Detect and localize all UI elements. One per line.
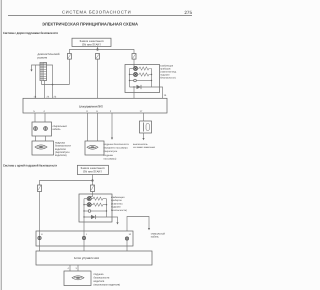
wire: pin 16 feed [35,65,37,98]
wire: cluster right bus [151,69,153,88]
squib symbol passenger [87,145,98,149]
label: spiral cable [53,125,68,131]
ignition switch box S2 [77,165,108,174]
wire: fuse F2 down to SRS pin [97,59,99,98]
instrument cluster box P2 [79,194,112,222]
connector ring 3 [125,237,128,240]
label: instrument cluster 2 [111,196,127,212]
squib symbol driver 2 [72,276,84,280]
svg-text:подушки: подушки [160,73,170,76]
svg-text:Система с одной подушкой безоп: Система с одной подушкой безопасности [3,163,57,167]
svg-text:подушка безопасности: подушка безопасности [104,143,130,146]
wire: cluster2 row3 link to spiral cable [127,217,149,232]
svg-text:кабель: кабель [151,236,160,239]
connector ring 2 [82,236,85,239]
driver airbag squib box 2 [64,271,91,286]
fuse F1 [67,54,71,60]
wire: U2 pin to squib right [77,265,79,271]
ignition switch box S1 [72,38,111,46]
svg-text:275: 275 [184,10,192,15]
wire: pin 4 down [44,113,46,122]
wire: cluster left bus [129,69,131,88]
node: bus junction dot [96,48,98,50]
wire: row3 c2 [84,210,88,212]
node: small circle row3 c2 [88,210,91,213]
arrow: to ground/other circuit [30,70,32,72]
label: spiral cable 2 [151,233,166,239]
wire: row3 [130,80,134,82]
wire: cluster2 left bus [83,199,85,222]
wire: cluster right exit pin 15 [152,87,163,98]
instrument cluster box P1 [125,65,160,93]
label: passenger airbag [104,143,130,160]
wire: cluster2 entry [92,194,94,197]
arrow: to spiral cable label [148,228,150,230]
wire: pin 5 down [34,113,36,122]
connector box on pin 17 [140,121,152,133]
diode D2 [84,215,107,219]
connector ring A [34,127,38,131]
label: ignition key switch [133,143,156,149]
svg-text:приборов: приборов [160,67,171,70]
wire: connector leg to bus y84.5 [41,81,43,85]
fuse F3 [132,54,136,60]
node dots cluster P2 [83,204,107,218]
wire ring 3 down [126,240,128,251]
svg-text:(пиропатрон: (пиропатрон [104,150,118,153]
lamp L3 [87,197,91,201]
resistor R4 [91,203,106,206]
arrow: cluster2 exit [116,222,118,224]
svg-text:подушки: подушки [104,154,114,157]
wire: fuse F3 down to cluster [133,59,135,64]
wire: pin 6 down [97,113,99,141]
label: diagnostic connector [38,52,60,59]
svg-text:на замке зажигания: на замке зажигания [133,146,156,149]
wire: long drop from F4 [39,192,41,232]
svg-text:пассажира): пассажира) [104,157,117,160]
svg-text:ON или START: ON или START [83,170,102,174]
wire: horizontal link y84.5 [42,84,70,86]
svg-text:(лампочка-инд.: (лампочка-инд. [160,70,177,73]
node: bus2 junction dot [91,179,93,181]
fuse F2 [96,54,100,60]
svg-text:кабель: кабель [53,128,62,131]
wire: bracket right of connector to pin 24 [47,65,53,98]
wire through ring 1 [39,231,41,251]
connector ring B [44,127,48,131]
svg-text:комбинация: комбинация [160,64,174,67]
wire: pin 9 down [87,113,89,141]
page left edge line [0,0,2,290]
wire: F5 to cluster 2 [92,192,94,195]
node: small circle row3 [134,79,137,82]
wire: row1 left [130,68,134,70]
svg-text:разъем: разъем [38,56,48,60]
label: driver airbag 2 [94,273,121,287]
svg-text:ON или START: ON или START [82,42,101,46]
svg-text:безопасности): безопасности) [111,209,127,212]
fuse F4 [38,185,42,192]
svg-text:ЭЛЕКТРИЧЕСКАЯ ПРИНЦИПИАЛЬНАЯ С: ЭЛЕКТРИЧЕСКАЯ ПРИНЦИПИАЛЬНАЯ СХЕМА [42,22,138,27]
diagnostic connector X1 (ladder) [40,63,47,81]
label: driver airbag [55,141,71,157]
resistor R3 [91,197,106,200]
header rule [8,15,192,17]
SRS control unit U1 [23,98,167,113]
wire: pin 17 down [143,113,145,121]
resistor R1 [138,67,152,70]
svg-text:Система с двумя подушками безо: Система с двумя подушками безопасности [3,31,58,35]
svg-text:водителя): водителя) [55,154,67,157]
wire: bus 2 [40,181,93,186]
connector ring 1 [38,236,41,239]
svg-text:(пиропатрон водителя): (пиропатрон водителя) [94,284,121,287]
svg-text:безопасности): безопасности) [160,76,176,79]
wire: fuse F1 down [68,59,70,84]
wire: connector leg pin 23 [44,81,46,99]
wire: below connector box [143,133,145,138]
wire: ignition stub [97,47,99,50]
fuse F5 [91,185,95,192]
wire: row2 left [130,74,134,76]
wire: cluster2 right bus [106,199,108,217]
wire: pin 2 down [111,113,113,138]
svg-text:Блок управления: Блок управления [74,256,99,260]
svg-text:переднего пассажира: переднего пассажира [104,147,129,150]
driver airbag squib box [32,141,54,155]
passenger airbag squib box [85,141,104,155]
squib symbol driver [35,145,47,149]
arrow: pin 2 to label [111,138,113,140]
lamp L2 [133,72,137,76]
wire: cluster entry [133,65,135,69]
spiral cable box W2 [36,231,133,246]
wire: bracket left of connector [32,65,41,70]
arrow: pin 17 to label [142,138,144,140]
lamp L4 [87,203,91,207]
wire: U2 pin to squib left [69,265,71,271]
diode D1 [130,85,152,89]
wire: spiral to squib left [35,136,37,141]
svg-text:Блок управления SRS: Блок управления SRS [79,104,103,108]
resistor R2 [138,73,152,76]
spiral cable box W1 [32,122,52,136]
wire: supply bus [69,50,134,54]
lamp L1 (airbag warning) [133,66,137,70]
wire: row1 left c2 [84,198,87,200]
wire: spiral to squib right [45,136,47,141]
wire: cluster2 right exit [107,217,118,222]
wire: cluster bottom exit to SRS [133,87,135,98]
SRS control unit U2 [36,251,152,265]
wire through ring 2 [83,222,85,251]
wire: row2 left c2 [84,204,87,206]
label: instrument cluster [160,64,177,79]
node: junction at 52.5,84.5 [52,84,54,86]
svg-text:СИСТЕМА БЕЗОПАСНОСТИ: СИСТЕМА БЕЗОПАСНОСТИ [62,10,131,15]
wire: ignition 2 stub [92,175,94,181]
node dots cluster P1 [129,74,152,88]
